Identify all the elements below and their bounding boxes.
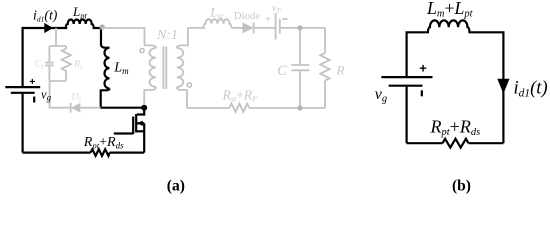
wire left rail bottom (a) — [22, 93, 24, 153]
MOSFET body arrowhead — [137, 121, 143, 126]
wire L_st to diode — [232, 27, 243, 29]
resistor R (output, vertical zigzag) — [320, 53, 329, 81]
transformer primary winding — [150, 48, 157, 87]
label minus of v_F — [283, 18, 288, 20]
capacitor C lead top — [299, 29, 301, 65]
wire bottom rail (b) left — [407, 142, 443, 144]
MOSFET body arrow stub — [137, 122, 144, 124]
battery v_g (b) long plate — [381, 76, 432, 78]
transformer polarity dot secondary — [187, 83, 191, 87]
wire R_st+R_F to corner — [250, 107, 326, 109]
node output top dot — [297, 25, 302, 30]
battery v_g (a) short plate — [11, 92, 35, 94]
transformer primary bottom lead — [144, 87, 156, 105]
wire left rail top (a) — [23, 28, 46, 86]
wire diode to v_F — [254, 27, 276, 29]
transformer secondary winding — [177, 48, 184, 87]
svg-text:Diode: Diode — [234, 10, 261, 22]
transformer secondary top lead — [177, 28, 188, 49]
resistor R_st+R_F (zigzag on bottom rail) — [229, 104, 249, 112]
node output bottom dot — [297, 105, 302, 110]
wire left rail (b) bottom — [406, 86, 408, 144]
transformer core — [163, 46, 166, 89]
svg-text:Rst+RF: Rst+RF — [222, 88, 258, 104]
inductor L_st — [204, 19, 232, 28]
wire bottom rail (a) left part — [23, 152, 91, 154]
label minus battery (a) — [33, 97, 35, 103]
MOSFET gate bar — [132, 117, 134, 135]
MOSFET source lead down — [143, 123, 145, 152]
svg-text:(b): (b) — [452, 178, 471, 195]
MOSFET Q drain lead — [137, 108, 144, 115]
diode (output) bar — [253, 22, 255, 33]
wire top rail to transformer primary — [102, 28, 156, 48]
transformer polarity dot primary — [140, 48, 144, 52]
battery v_g (a) long plate — [5, 86, 40, 88]
capacitor C_s plates — [45, 63, 54, 66]
diode D_s triangle — [71, 103, 81, 113]
wire L_pt to corner down to L_m — [93, 28, 110, 48]
svg-text:id1(t): id1(t) — [33, 7, 58, 23]
inductor L_pt — [66, 20, 94, 29]
wire top rail (b) left — [407, 32, 429, 77]
svg-text:+: + — [419, 61, 427, 76]
label minus battery (b) — [421, 90, 423, 96]
MOSFET gate lead — [114, 132, 133, 134]
svg-text:(a): (a) — [167, 178, 185, 195]
source v_F long plate — [275, 13, 277, 40]
resistor R_pt+R_ds (b) — [443, 139, 469, 148]
wire arrow to L_pt — [50, 27, 67, 29]
current arrow i_d1 (b) — [497, 79, 509, 94]
wire L_m bottom to drain node — [101, 89, 144, 108]
wire snubber tap — [55, 28, 57, 46]
capacitor C_s lead bottom — [48, 65, 50, 81]
resistor R_pt+R_ds (zigzag bottom) — [91, 149, 110, 156]
diode D_s (points left) bar — [70, 103, 72, 113]
svg-text:C: C — [277, 63, 287, 79]
wire bottom rail (a) right part — [110, 152, 145, 154]
resistor R lead bottom — [324, 81, 326, 108]
MOSFET source stub — [136, 130, 144, 132]
diode (output) triangle — [243, 22, 254, 33]
inductor L_m+L_pt (b) — [428, 20, 470, 32]
wire top rail (b) right + right rail — [469, 32, 504, 143]
wire down to R — [324, 28, 326, 53]
transformer secondary bottom lead — [177, 87, 187, 108]
battery v_g (b) short plate — [389, 85, 423, 87]
wire diode to drain node — [80, 107, 100, 109]
svg-text:N:1: N:1 — [156, 28, 178, 43]
node junction dot at L_pt output (grey) — [100, 24, 105, 29]
inductor L_m — [104, 48, 109, 89]
MOSFET channel bar — [135, 114, 137, 132]
wire bottom rail (b) right — [469, 142, 504, 144]
source v_F short plate — [279, 19, 281, 34]
wire snubber top splitter — [49, 45, 66, 47]
node drain junction dot — [141, 105, 147, 111]
capacitor C plates — [291, 65, 309, 70]
wire snubber down to diode — [50, 80, 71, 108]
wire output bottom rail — [187, 107, 229, 109]
wire v_F to output node — [280, 27, 325, 29]
capacitor C_s lead top — [48, 46, 50, 62]
svg-text:R: R — [336, 63, 345, 78]
wire snubber bottom join — [49, 80, 66, 82]
svg-text:+: + — [29, 76, 35, 88]
svg-text:+: + — [265, 15, 271, 26]
capacitor C lead bottom — [299, 70, 301, 107]
svg-text:id1(t): id1(t) — [514, 78, 548, 99]
current arrow i_d1 (a) — [44, 23, 53, 33]
resistor R_s (snubber, vertical zigzag) — [62, 46, 71, 81]
wire secondary top to L_st — [188, 27, 205, 29]
